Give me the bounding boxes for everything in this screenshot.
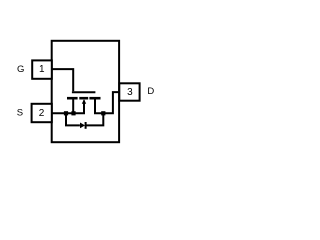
body diode D1: cathode bar [85, 122, 87, 129]
pin 2 box (source terminal) [32, 104, 52, 122]
body diode D1: anode triangle (points right, S to D) [80, 123, 85, 129]
wire: source lead down from channel [72, 98, 74, 113]
wire: body diode branch (cathode side run and riser) [86, 113, 104, 125]
pin 3 box (drain terminal) [119, 83, 139, 100]
package outline (SOT-23 body) [52, 41, 119, 142]
svg-text:2: 2 [39, 108, 45, 119]
gate electrode bar of MOSFET Q1 [72, 91, 96, 93]
wire: source bus from pin 2 to body lead [52, 112, 85, 114]
svg-text:1: 1 [39, 64, 45, 75]
svg-text:G: G [17, 64, 24, 75]
wire: body lead with N-channel arrow pointing up to channel [83, 101, 85, 114]
channel segment (drain side) of MOSFET Q1 [89, 97, 100, 100]
junction dot: source lead on source bus [71, 111, 75, 115]
svg-text:D: D [147, 86, 154, 97]
junction dot: diode cathode tap on drain wire [101, 111, 105, 115]
junction dot: diode anode tap on source bus [64, 111, 68, 115]
svg-text:S: S [17, 107, 23, 118]
wire: gate lead from pin 1 to gate electrode [52, 69, 73, 91]
wire: body diode branch (anode side riser and run) [66, 113, 80, 125]
wire: drain lead down from channel, right and up to pin 3 [95, 92, 119, 113]
arrowhead of body connection (points up, N-channel) [82, 99, 86, 104]
pin 1 box (gate terminal) [32, 60, 52, 78]
svg-text:3: 3 [127, 87, 133, 98]
channel segment (body, middle) of MOSFET Q1 [79, 97, 88, 100]
channel segment (source side) of MOSFET Q1 [67, 97, 78, 100]
